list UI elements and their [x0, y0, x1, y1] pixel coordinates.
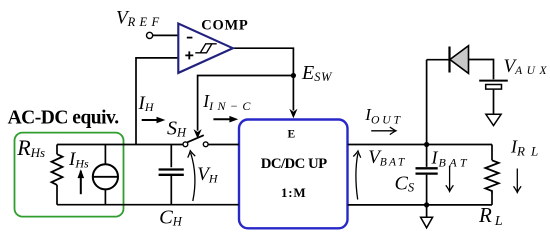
svg-text:DC/DC UP: DC/DC UP	[261, 156, 327, 172]
svg-text:COMP: COMP	[201, 18, 248, 34]
svg-text:AC-DC equiv.: AC-DC equiv.	[8, 108, 120, 129]
svg-text:E: E	[288, 128, 296, 140]
svg-text:1:M: 1:M	[281, 185, 307, 200]
